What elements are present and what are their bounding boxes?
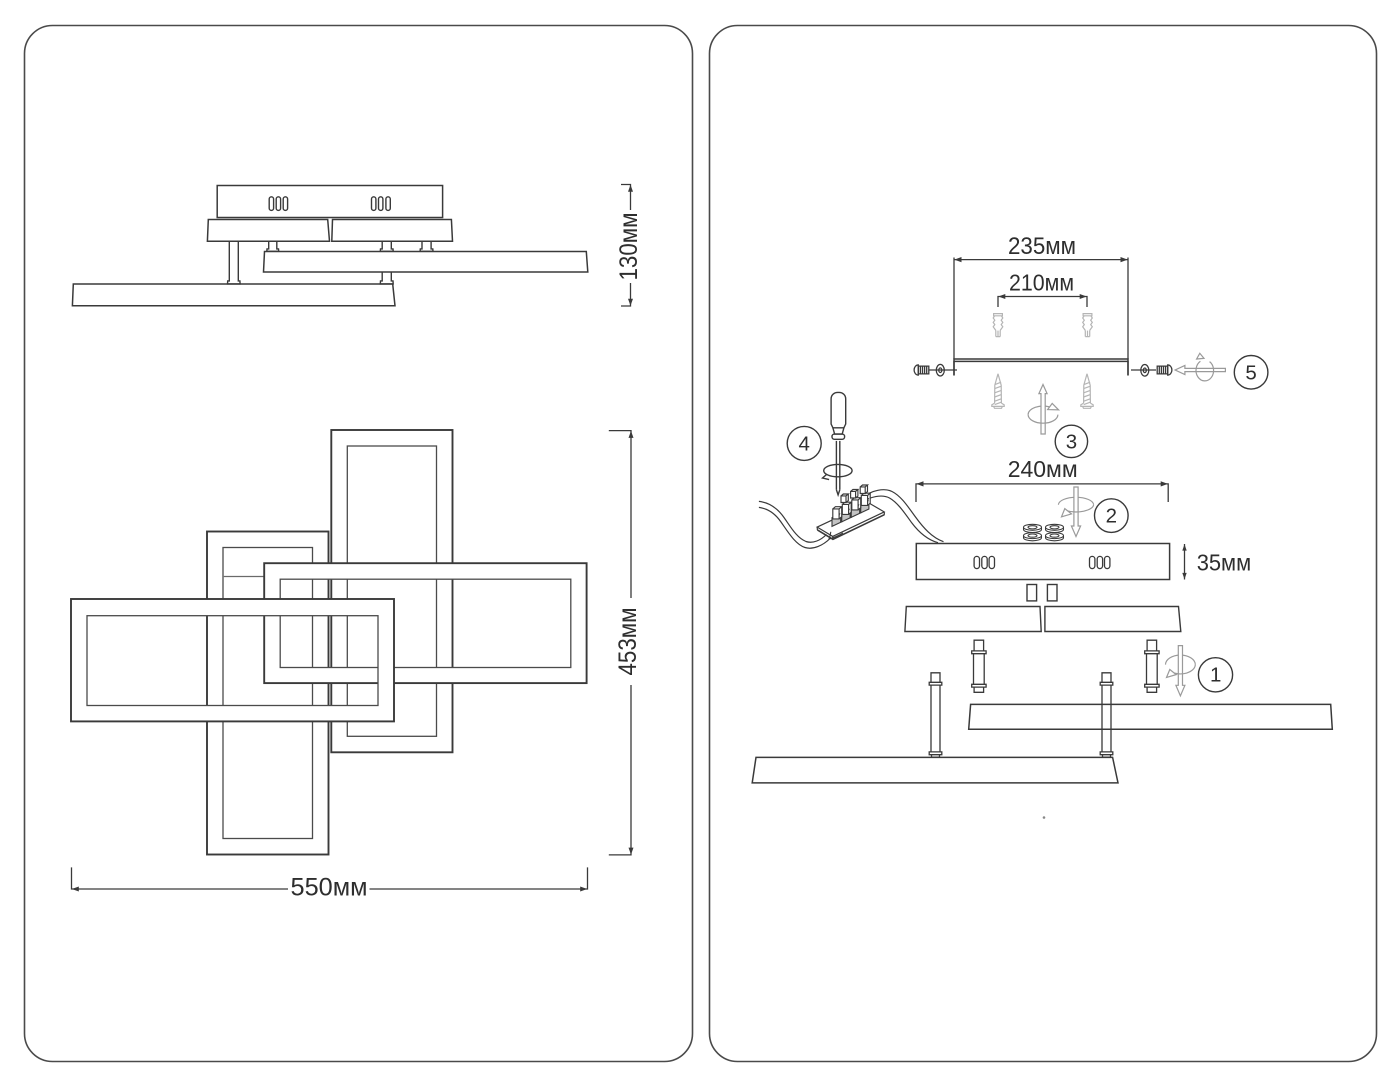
svg-text:3: 3 bbox=[1066, 431, 1077, 454]
svg-text:1: 1 bbox=[1210, 663, 1221, 686]
svg-text:4: 4 bbox=[798, 433, 809, 456]
svg-text:2: 2 bbox=[1106, 505, 1117, 528]
svg-text:453мм: 453мм bbox=[614, 608, 642, 676]
svg-text:240мм: 240мм bbox=[1008, 456, 1078, 482]
svg-text:235мм: 235мм bbox=[1008, 233, 1076, 260]
svg-text:5: 5 bbox=[1245, 362, 1256, 385]
svg-text:210мм: 210мм bbox=[1009, 270, 1074, 296]
svg-text:35мм: 35мм bbox=[1197, 550, 1252, 576]
svg-text:550мм: 550мм bbox=[291, 874, 368, 902]
svg-text:130мм: 130мм bbox=[615, 213, 643, 281]
